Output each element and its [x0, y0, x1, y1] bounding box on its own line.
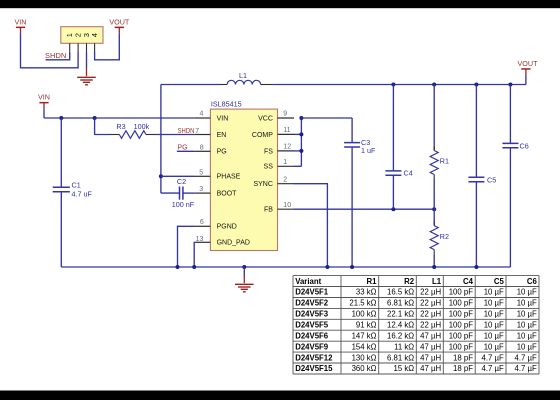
IC right pin stubs: [278, 118, 295, 209]
svg-text:D24V5F12: D24V5F12: [295, 353, 333, 362]
svg-text:C6: C6: [527, 277, 538, 286]
svg-text:10 µF: 10 µF: [517, 331, 537, 340]
svg-text:EN: EN: [217, 132, 227, 139]
op-amp U1 ISL85415 body: [210, 109, 277, 250]
svg-text:10 µF: 10 µF: [484, 331, 504, 340]
svg-text:10 µF: 10 µF: [517, 288, 537, 297]
svg-text:C4: C4: [404, 169, 413, 178]
variant table: [293, 276, 539, 374]
port VIN (main input): [38, 93, 50, 109]
svg-text:9: 9: [283, 111, 287, 118]
svg-text:1 uF: 1 uF: [361, 146, 376, 155]
wire FB row: [294, 208, 434, 210]
svg-text:100 pF: 100 pF: [449, 299, 474, 308]
junction PHASE: [159, 174, 163, 178]
net label PG and stub wire: [177, 145, 195, 152]
svg-text:D24V5F9: D24V5F9: [295, 342, 329, 351]
label R3 100k: [116, 122, 149, 131]
svg-text:R2: R2: [440, 232, 449, 241]
label C5: [487, 175, 496, 184]
svg-text:PGND: PGND: [217, 224, 237, 231]
junction SYNC/rail: [325, 265, 329, 269]
IC left pin stubs: [195, 118, 211, 242]
svg-text:C4: C4: [463, 277, 474, 286]
svg-text:16.5 kΩ: 16.5 kΩ: [387, 288, 414, 297]
svg-text:C6: C6: [520, 141, 529, 150]
wire VIN port down to VIN rail: [43, 109, 45, 118]
IC right pin numbers: [283, 111, 291, 209]
svg-text:6.81 kΩ: 6.81 kΩ: [387, 353, 414, 362]
resistor R1: [430, 85, 438, 210]
svg-text:D24V5F6: D24V5F6: [295, 331, 329, 340]
svg-text:SS: SS: [264, 164, 274, 171]
svg-text:PG: PG: [217, 149, 227, 156]
svg-text:18 pF: 18 pF: [453, 353, 473, 362]
svg-text:12.4 kΩ: 12.4 kΩ: [387, 321, 414, 330]
wire SHDN to connector pin 1: [46, 52, 70, 60]
svg-text:100 pF: 100 pF: [449, 310, 474, 319]
svg-text:4.7 µF: 4.7 µF: [515, 353, 537, 362]
svg-text:4: 4: [199, 111, 203, 118]
svg-text:11 kΩ: 11 kΩ: [394, 342, 414, 351]
ground (connector pin 3): [77, 68, 96, 85]
svg-text:D24V5F5: D24V5F5: [295, 321, 329, 330]
svg-text:SHDN: SHDN: [45, 51, 66, 60]
capacitor C1: [53, 118, 70, 267]
junction R2/rail: [432, 265, 436, 269]
svg-text:R3: R3: [116, 122, 125, 131]
svg-text:FB: FB: [264, 207, 273, 214]
svg-text:10 µF: 10 µF: [517, 342, 537, 351]
svg-text:COMP: COMP: [252, 132, 273, 139]
wire FS to bus: [294, 150, 301, 152]
svg-text:16.2 kΩ: 16.2 kΩ: [387, 331, 414, 340]
svg-text:8: 8: [200, 145, 204, 152]
svg-text:100 pF: 100 pF: [449, 331, 474, 340]
svg-text:100 pF: 100 pF: [449, 342, 474, 351]
junction C3/rail: [350, 265, 354, 269]
label C4: [404, 169, 413, 178]
svg-text:47 µH: 47 µH: [420, 342, 441, 351]
label C6: [520, 141, 529, 150]
svg-text:3: 3: [199, 186, 203, 193]
capacitor C3: [344, 118, 360, 267]
svg-text:C5: C5: [494, 277, 505, 286]
wire VIN to connector pin 2: [21, 34, 79, 68]
svg-text:VIN: VIN: [38, 93, 50, 102]
capacitor C5: [468, 85, 484, 268]
svg-text:D24V5F2: D24V5F2: [295, 299, 329, 308]
junction PGND/rail: [176, 265, 180, 269]
svg-text:154 kΩ: 154 kΩ: [352, 342, 377, 351]
junction rail/C4: [391, 83, 395, 87]
connector CON1 body: [61, 27, 103, 44]
wire top rail left segment: [161, 84, 220, 86]
wire VOUT port to rail: [525, 75, 527, 84]
junction ground symbol: [242, 265, 246, 269]
junction C5/rail: [474, 265, 478, 269]
svg-text:10 µF: 10 µF: [484, 299, 504, 308]
wire PHASE vertical (L1 left leg): [160, 85, 162, 194]
svg-text:10 µF: 10 µF: [517, 321, 537, 330]
svg-text:91 kΩ: 91 kΩ: [356, 321, 377, 330]
svg-text:4.7 uF: 4.7 uF: [72, 190, 93, 199]
wire R3 to EN pin: [155, 134, 195, 136]
svg-text:100k: 100k: [134, 122, 150, 131]
capacitor C6: [502, 85, 518, 268]
svg-text:VCC: VCC: [258, 116, 273, 123]
svg-text:4.7 µF: 4.7 µF: [515, 364, 537, 373]
svg-text:10: 10: [283, 202, 291, 209]
label C3 1 uF: [361, 138, 376, 155]
svg-text:11: 11: [283, 127, 290, 134]
wire VCC bus vertical: [300, 118, 302, 166]
svg-text:4: 4: [90, 33, 99, 37]
svg-text:SHDN: SHDN: [178, 128, 195, 135]
wire GND_PAD down: [193, 242, 195, 267]
IC left pin names: [217, 116, 250, 247]
svg-text:22.1 kΩ: 22.1 kΩ: [387, 310, 414, 319]
label C1 4.7 uF: [72, 181, 93, 199]
wire PHASE to pin: [161, 175, 195, 177]
svg-text:33 kΩ: 33 kΩ: [356, 288, 377, 297]
svg-text:PHASE: PHASE: [217, 174, 241, 181]
wire BOOT row to C2: [161, 192, 179, 194]
svg-text:22 µH: 22 µH: [420, 299, 441, 308]
IC right pin names: [252, 116, 273, 214]
inductor L1: [220, 80, 274, 84]
port VOUT (connector block): [109, 17, 130, 33]
junction VIN/C1: [59, 116, 63, 120]
svg-text:147 kΩ: 147 kΩ: [352, 331, 377, 340]
label R1: [440, 157, 449, 166]
svg-text:21.5 kΩ: 21.5 kΩ: [349, 299, 376, 308]
svg-text:6.81 kΩ: 6.81 kΩ: [387, 299, 414, 308]
junction GND_PAD/rail: [192, 265, 196, 269]
wire COMP to bus: [294, 133, 301, 135]
svg-text:PG: PG: [177, 145, 187, 152]
wire top rail right segment: [274, 84, 526, 86]
svg-text:100 kΩ: 100 kΩ: [352, 310, 377, 319]
svg-text:22 µH: 22 µH: [420, 310, 441, 319]
capacitor C2: [180, 187, 195, 200]
svg-text:100 pF: 100 pF: [449, 321, 474, 330]
junction rail/C5: [474, 83, 478, 87]
svg-text:C1: C1: [72, 181, 81, 190]
black letterbox bar top: [0, 0, 560, 8]
net label SHDN (EN pin): [178, 128, 195, 135]
svg-text:C2: C2: [177, 177, 186, 186]
resistor R3: [111, 131, 155, 139]
junction rail/C6: [508, 83, 512, 87]
IC left pin numbers: [195, 111, 204, 244]
svg-text:22 µH: 22 µH: [420, 288, 441, 297]
port VOUT (output): [518, 59, 539, 75]
svg-text:13: 13: [196, 236, 204, 243]
svg-text:2: 2: [283, 176, 287, 183]
resistor R2: [430, 209, 438, 267]
svg-text:VOUT: VOUT: [518, 59, 539, 68]
svg-text:R1: R1: [440, 157, 449, 166]
svg-text:R2: R2: [404, 277, 415, 286]
junction FB/C4: [391, 207, 395, 211]
svg-text:L1: L1: [239, 71, 247, 80]
svg-text:5: 5: [199, 169, 203, 176]
label R2: [440, 232, 449, 241]
label C2 100 nF: [172, 177, 195, 209]
connector pin stubs: [70, 43, 95, 52]
svg-text:12: 12: [283, 144, 291, 151]
junction COMP: [299, 132, 303, 136]
svg-text:10 µF: 10 µF: [517, 299, 537, 308]
svg-text:100 nF: 100 nF: [172, 200, 195, 209]
svg-text:22 µH: 22 µH: [420, 321, 441, 330]
svg-text:D24V5F15: D24V5F15: [295, 364, 333, 373]
svg-text:47 µH: 47 µH: [420, 331, 441, 340]
wire VOUT to connector pin 4: [95, 34, 120, 60]
svg-text:10 µF: 10 µF: [484, 310, 504, 319]
junction VCC: [299, 116, 303, 120]
wire SYNC down to ground rail: [294, 184, 327, 267]
svg-text:D24V5F3: D24V5F3: [295, 310, 329, 319]
svg-text:ISL85415: ISL85415: [211, 100, 242, 109]
wire ground rail: [61, 266, 510, 268]
black letterbox bar bottom: [0, 391, 560, 400]
svg-text:L1: L1: [432, 277, 442, 286]
wire PGND down: [178, 226, 195, 267]
junction VIN/R3: [93, 116, 97, 120]
svg-text:GND_PAD: GND_PAD: [217, 240, 250, 247]
svg-text:10 µF: 10 µF: [517, 310, 537, 319]
svg-text:130 kΩ: 130 kΩ: [352, 353, 377, 362]
svg-text:FS: FS: [264, 148, 273, 155]
svg-text:18 pF: 18 pF: [453, 364, 473, 373]
svg-text:100 pF: 100 pF: [449, 288, 474, 297]
svg-text:Variant: Variant: [295, 277, 321, 286]
junction rail/R1: [432, 83, 436, 87]
svg-text:4.7 µF: 4.7 µF: [482, 353, 504, 362]
svg-text:10 µF: 10 µF: [484, 321, 504, 330]
svg-text:10 µF: 10 µF: [484, 288, 504, 297]
junction FS: [299, 149, 303, 153]
junction FB/R1R2: [432, 207, 436, 211]
label L1: [239, 71, 247, 80]
wire VCC to C3: [301, 117, 352, 119]
svg-text:C5: C5: [487, 175, 496, 184]
svg-text:360 kΩ: 360 kΩ: [352, 364, 377, 373]
wire SS to bus: [294, 165, 301, 167]
svg-text:47 µH: 47 µH: [420, 353, 441, 362]
wire R3 branch: [95, 118, 111, 135]
label ISL85415: [211, 100, 242, 109]
svg-text:VIN: VIN: [217, 116, 229, 123]
connector pin numbers 1 2 3 4 (rotated): [65, 33, 99, 37]
svg-text:SYNC: SYNC: [253, 181, 272, 188]
net label SHDN (connector): [45, 51, 66, 60]
svg-text:VOUT: VOUT: [109, 17, 130, 26]
svg-text:VIN: VIN: [15, 17, 27, 26]
svg-text:7: 7: [195, 128, 199, 135]
svg-text:6: 6: [200, 219, 204, 226]
svg-text:R1: R1: [367, 277, 378, 286]
svg-text:10 µF: 10 µF: [484, 342, 504, 351]
wire VIN rail: [44, 117, 195, 119]
svg-text:1: 1: [283, 159, 287, 166]
svg-text:BOOT: BOOT: [217, 191, 238, 198]
ground (main rail): [235, 267, 254, 292]
port VIN (connector block): [15, 17, 27, 33]
capacitor C4: [385, 85, 401, 210]
svg-text:D24V5F1: D24V5F1: [295, 288, 329, 297]
svg-text:4.7 µF: 4.7 µF: [482, 364, 504, 373]
wire connector pin 3 to ground: [86, 52, 88, 68]
svg-text:47 µH: 47 µH: [420, 364, 441, 373]
svg-text:15 kΩ: 15 kΩ: [394, 364, 415, 373]
